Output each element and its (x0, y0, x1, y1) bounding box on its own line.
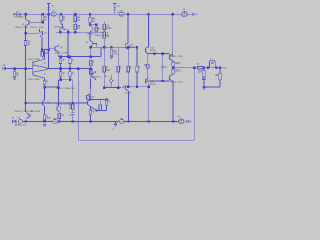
wire ladder mid (48, 68, 91, 70)
port flag top-left (13, 11, 20, 15)
wire x104 upper (103, 20, 105, 22)
wire x90 to Q5 (89, 24, 91, 27)
svg-text:100n: 100n (106, 28, 112, 30)
wire src to arrow bottom (184, 120, 186, 122)
wire lower base wire right (126, 86, 148, 88)
wire zobel top (203, 68, 205, 71)
wire rail down x148 (147, 14, 149, 47)
wire drv res top (147, 54, 149, 65)
junction left mid x14.6 (13, 67, 15, 69)
wire y99.4 wire (90, 98, 107, 100)
wire buffer base stub (31, 68, 33, 70)
wire left bus upper (25, 26, 27, 41)
ground below R8 (110, 56, 113, 58)
wire out to label (216, 67, 222, 69)
junction out x216.4 (215, 67, 217, 69)
wire ladder R1c top (69, 57, 71, 59)
wire load bottom (219, 80, 221, 87)
junction x104 y47.3 (103, 46, 105, 48)
junction top rail x128 (127, 13, 129, 15)
wire inductor leads (208, 67, 217, 69)
junction bottom x44.9b (43, 120, 45, 122)
wire ladder R2c bot (69, 76, 71, 79)
resistor Re lower (172, 69, 181, 73)
wire rail down x172.7 (172, 14, 174, 56)
wire Re upper top (172, 61, 174, 62)
svg-text:0: 0 (112, 129, 113, 131)
svg-text:W: W (44, 63, 46, 65)
wire QD0 collector stub (94, 71, 96, 72)
wire x97.4 upper lead (95, 25, 97, 27)
wire Q4 collector stub (57, 44, 59, 46)
wire top rail segment C (124, 13, 182, 15)
wire buffer base down (32, 69, 34, 72)
resistor Re upper (172, 62, 181, 66)
wire Q4 emitter to ladder (57, 52, 59, 57)
wire QD0 emitter stub (94, 79, 96, 81)
junction out x203.9 (203, 67, 205, 69)
junction out x219.9 (219, 67, 221, 69)
junction y87.1 x57.7 (57, 86, 59, 88)
svg-text:SINE(0 1 1k): SINE(0 1 1k) (15, 125, 26, 127)
wire Q6 base link (92, 43, 97, 45)
transistor Q10 (125, 43, 128, 49)
transistor Q4 (55, 46, 58, 52)
junction y32.3 x68 (67, 31, 69, 33)
junction y47.3 x136.9 (136, 46, 138, 48)
wire Rq join (106, 105, 108, 110)
junction loop top (193, 67, 195, 69)
svg-text:W70K_CONN: W70K_CONN (28, 59, 40, 61)
svg-text:8R: 8R (215, 75, 218, 77)
junction out x207.9 (207, 67, 209, 69)
transistor QB lower (33, 69, 48, 78)
junction ladder mid x78.3 (77, 67, 79, 69)
wire Q4 base link (49, 48, 55, 50)
wire ladder top ext (58, 56, 60, 58)
resistor Rq a (105, 100, 110, 105)
wire Q12 base stub (168, 54, 170, 58)
wire ladder R1c bot (69, 64, 71, 69)
wire x48.6 long vertical (48, 14, 50, 68)
wire bottom rail A (22, 120, 53, 122)
wire top rail segment A (16, 13, 51, 15)
wire Rq b top (99, 99, 101, 105)
svg-text:10R: 10R (198, 72, 203, 74)
junction top rail x75.3 (74, 13, 76, 15)
wire BD140 collector down (148, 83, 150, 121)
wire y87.1 link (45, 86, 59, 88)
junction x90.8 y68.6 (90, 67, 92, 69)
wire R3 top lead (60, 14, 62, 15)
junction x72.7 bottom (72, 120, 74, 122)
junction top rail x42.6 (41, 13, 43, 15)
resistor load 8R (215, 73, 221, 79)
resistor x90.8 b (90, 69, 93, 74)
wire R4 top lead (74, 14, 76, 16)
junction x72.7 y102.9 (72, 102, 74, 104)
wire R2 bottom lead (41, 56, 43, 58)
svg-text:W: W (44, 74, 46, 76)
transistor Q1 (26, 19, 29, 26)
junction y47.3 x128.3 (127, 46, 129, 48)
wire ladder L1 bot (60, 64, 62, 69)
junction ladder top x68 (67, 55, 69, 57)
resistor R7 (103, 24, 112, 30)
junction y47.3 x111.5 (110, 46, 112, 48)
wire drv res bottom (147, 68, 149, 78)
wire Rm3 bottom (127, 72, 129, 87)
wire loop vert right (193, 68, 195, 141)
wire QD1 collector stub (89, 94, 91, 96)
wire x104 top lead (103, 21, 105, 24)
junction y87.6 x104.3 (103, 86, 105, 88)
wire Q3 base path a (63, 28, 65, 30)
resistor chain R (43, 81, 48, 85)
wire Rgnd top lead (14, 69, 16, 72)
wire output node right b (203, 67, 208, 69)
junction y87.6 x118.2 (117, 86, 119, 88)
transistor Q3 (60, 23, 64, 29)
wire cap bottom lead (162, 68, 164, 81)
junction x90.1 y99.4 (89, 98, 91, 100)
transistor Q15 mirror (122, 85, 128, 91)
wire loop vert left (77, 69, 79, 141)
port flag top-right (193, 13, 197, 16)
resistor fb (69, 104, 74, 110)
resistor Rm4 (136, 66, 141, 72)
junction left bus y103 (24, 102, 26, 104)
wire Rm4 top (136, 47, 138, 66)
junction x59.3 bottom (58, 120, 60, 122)
svg-text:2N5401_CONN: 2N5401_CONN (30, 27, 44, 29)
svg-text:V3: V3 (18, 118, 20, 120)
junction y53.6 x162.7 (162, 52, 164, 54)
svg-text:Vm: Vm (120, 118, 123, 120)
resistor ladder L1 (59, 59, 64, 64)
wire Re lower bottom (172, 74, 174, 75)
transistor Q8b (87, 100, 90, 107)
junction ladder top x90.8 (90, 55, 92, 57)
resistor ladder R2c (69, 72, 74, 77)
wire bottom rail B (58, 120, 120, 122)
junction x128.4 bottom (127, 120, 129, 122)
junction y32.3 x60.1 (59, 31, 61, 33)
V+ flag bar 2 (113, 2, 116, 4)
svg-text:2N5401: 2N5401 (55, 27, 62, 29)
junction x96.2 y24.8 (95, 24, 97, 26)
resistor R8 to gnd (110, 49, 118, 56)
junction top rail x172.7 (172, 13, 174, 15)
resistor driver lower (144, 64, 149, 68)
wire fb mid (72, 109, 74, 113)
junction x90.6 bottom (89, 120, 91, 122)
resistor Rm2 (117, 66, 122, 72)
junction x90 y24.8 (89, 24, 91, 26)
transistor Q12 output upper (169, 54, 173, 61)
wire gnd stub bottom mid (115, 121, 117, 124)
wire QA base (26, 102, 40, 104)
junction chain y87.1 (43, 86, 45, 88)
junction x148.7 bottom (148, 120, 150, 122)
wire Q2 base link (26, 32, 40, 34)
wire Rm2 bottom (117, 72, 119, 88)
capacitor x162.7 (161, 66, 167, 69)
wire Q13 collector down (172, 81, 174, 121)
wire x58.5 to diode (58, 105, 61, 107)
wire Rm4 bottom (136, 72, 138, 87)
junction top rail x148.4 (147, 13, 149, 15)
fuse marks on V+ stub (47, 8, 50, 10)
wire lower base wire left (104, 87, 121, 89)
ammeter bottom left (53, 118, 58, 124)
ammeter on top rail right (119, 10, 124, 16)
wire x96.2 lower lead (95, 31, 97, 32)
port flag left mid (2, 65, 6, 70)
wire zobel-load join (204, 86, 220, 88)
svg-text:BD139: BD139 (150, 50, 156, 52)
wire fb bottom (72, 114, 74, 121)
wire x90.8 seg3 (90, 47, 92, 60)
junction bottom x25.6 (24, 120, 26, 122)
wire B1 bottom lead (110, 83, 112, 88)
wire y24.8 link (90, 24, 96, 26)
junction ladder bottom x70.5 (69, 79, 71, 81)
wire Q8b base wire (73, 102, 88, 104)
wire ladder L1 top (60, 57, 62, 59)
wire D1 bottom stub (58, 119, 60, 122)
ammeter on top rail left (51, 10, 56, 16)
wire QB upper collector (43, 50, 45, 60)
wire x104 vertical b (103, 38, 105, 66)
transistor QD1 (86, 94, 90, 100)
wire R4 mid lead (74, 22, 76, 25)
wire R5 bottom lead (74, 30, 76, 33)
wire ladder R2c top (69, 69, 71, 72)
wire load top (219, 68, 221, 74)
junction left bus y33.3 (24, 32, 26, 34)
wire output node right (173, 67, 197, 69)
junction y86.7 x136.9 (136, 86, 138, 88)
resistor output series (197, 64, 203, 69)
junction x90.8 y47.3 (90, 46, 92, 48)
wire Q8b emitter (91, 107, 97, 111)
transistor Q6 bulge (90, 40, 92, 47)
wire ladder bottom drop (72, 80, 74, 103)
wire Rm2 top (117, 47, 119, 66)
wire ladder top (61, 56, 101, 58)
resistor x104 second (103, 32, 110, 39)
svg-text:INSTAMP: INSTAMP (15, 15, 24, 18)
wire QA emitter down (44, 106, 46, 115)
fuse marks on V+ stub 2 (114, 8, 117, 10)
wire V+ stub 2 (114, 3, 116, 14)
junction bottom x72.7b (72, 120, 74, 122)
transistor Q5 bulge (90, 25, 92, 32)
junction Q2 emitter node (41, 48, 43, 50)
wire x90.8 seg2 (89, 46, 92, 48)
current source B1 diamond (109, 79, 113, 84)
resistor small x96.2 (95, 27, 100, 31)
wire x72.7 top (72, 103, 74, 104)
transistor diode D1 (57, 106, 61, 112)
junction y99.4 x106.6 (105, 98, 107, 100)
wire bottom rail C (124, 120, 179, 122)
svg-text:2N5401_CONN: 2N5401_CONN (15, 27, 29, 29)
wire zobel mid (203, 77, 205, 78)
resistor R down gnd (13, 71, 19, 77)
svg-text:2N5551: 2N5551 (129, 47, 136, 49)
svg-text:2N5401_CONNECTED: 2N5401_CONNECTED (56, 88, 75, 90)
resistor R5 (74, 24, 81, 30)
svg-text:2N5401_C: 2N5401_C (93, 77, 102, 79)
wire mid link y32.3 (56, 31, 104, 33)
ground input node (43, 124, 46, 126)
resistor R2 left (41, 52, 49, 57)
junction top rail x49.3 (47, 13, 49, 15)
junction bottom x173.5 (172, 120, 174, 122)
wire left mid (5, 68, 31, 70)
resistor 47k (43, 115, 51, 120)
wire Q5 to Q6 (89, 32, 91, 41)
port flag bottom-left (12, 117, 16, 122)
resistor ladder L2 (59, 72, 64, 77)
transistor Q14 BD140 (145, 78, 148, 83)
wire Q2 collector up (39, 29, 41, 32)
transistor QD0 (92, 72, 95, 78)
wire source to flag top-right (187, 13, 192, 15)
source circle small top-left (19, 13, 21, 15)
wire x104 vertical c (103, 72, 105, 88)
wire ladder feed (67, 32, 69, 56)
resistor x90.6 (89, 110, 94, 115)
voltage source bottom-right (177, 116, 184, 124)
resistor ladder R1c (69, 59, 74, 64)
wire x99.6 bend (100, 47, 102, 56)
wire x90.6 top (90, 107, 92, 111)
transistor Q11 (145, 47, 148, 54)
wire R6 top lead (89, 14, 91, 17)
ground bottom mid (114, 124, 117, 126)
wire y49.6 link (42, 49, 49, 51)
V+ flag bar (47, 2, 50, 4)
wire Q2 emitter down (41, 37, 43, 50)
ground zobel (202, 88, 205, 90)
wire Q10 emitter down (127, 49, 129, 67)
junction left bus y68.6 (24, 67, 26, 69)
wire R1 bottom lead (42, 21, 44, 23)
wire R3 bottom lead (60, 20, 62, 23)
resistor Rq b (99, 105, 102, 110)
wire Q3 collector down (59, 29, 61, 32)
junction top rail x94.4 (89, 13, 91, 15)
svg-text:2N5401_CONN: 2N5401_CONN (170, 82, 183, 84)
svg-text:2N5401: 2N5401 (124, 92, 131, 94)
junction ladder mid x61 (59, 67, 61, 69)
junction ladder bottom x61 (59, 79, 61, 81)
svg-text:0R22: 0R22 (175, 63, 181, 65)
wire x57.7 down2 (58, 87, 60, 106)
wire Rgnd bottom lead (14, 76, 16, 77)
svg-text:OUT: OUT (223, 68, 227, 70)
wire x90.6 bottom (90, 115, 92, 122)
wire Q1 base bias (29, 21, 43, 23)
junction x44.9 bottom (43, 120, 45, 122)
wire y110.4 (96, 109, 106, 111)
junction zobel bottom (203, 86, 205, 88)
wire B1 top lead (110, 75, 112, 79)
wire Q3 base path c (67, 30, 69, 33)
junction x90.8 y56.6 (90, 55, 92, 57)
junction y86.7 x148.7 (148, 86, 150, 88)
junction y32.3 x75.3 (74, 31, 76, 33)
transistor Q2 (39, 31, 42, 37)
capacitor fb (70, 113, 75, 117)
wire x57.7 down (58, 80, 60, 87)
junction y80.9 x162.7 (162, 80, 164, 82)
svg-text:2N5401_CONN: 2N5401_CONN (55, 53, 68, 55)
wire Q8b collector up (89, 98, 91, 100)
transistor QA (39, 100, 44, 106)
svg-text:Vm2: Vm2 (117, 12, 121, 14)
junction y86.7 x128.3 (127, 86, 129, 88)
resistor Rm1 (103, 66, 111, 72)
wire x96.8 down (96, 44, 98, 48)
resistor R1 (41, 15, 48, 21)
svg-text:BD140: BD140 (150, 84, 156, 86)
wire VAS rail y47.3 (91, 46, 137, 48)
transistor Q13 output lower (169, 75, 173, 82)
wire lower driver wire (148, 80, 170, 82)
resistor Rm3 (127, 66, 132, 72)
capacitor zobel (202, 78, 206, 79)
resistor R6 (89, 17, 96, 23)
resistor below D1 (58, 113, 64, 118)
resistor R5 on left bus (24, 41, 31, 47)
junction bottom x90.6b (89, 120, 91, 122)
svg-text:2N5401_CONN: 2N5401_CONN (170, 56, 183, 58)
junction bias node (41, 21, 43, 23)
junction ladder top x70.5 (69, 55, 71, 57)
resistor zobel (198, 70, 206, 76)
transistor diode D2 (27, 113, 31, 119)
svg-text:W70K_CONN: W70K_CONN (28, 79, 40, 81)
svg-text:AS_DIODE: AS_DIODE (31, 110, 41, 113)
wire chain mid (44, 85, 46, 87)
wire R8 bottom lead (111, 55, 113, 58)
wire V+ stub (48, 3, 50, 14)
resistor R4 (74, 16, 81, 22)
junction y49.6 x48.6 (47, 48, 49, 50)
wire Q13 base stub (168, 80, 170, 81)
wire R2 top lead (41, 50, 43, 52)
wire top rail segment B (56, 13, 119, 15)
junction top rail x25.6 (24, 13, 26, 15)
inductor/meter output (209, 60, 215, 67)
wire left bus lower (25, 46, 27, 112)
wire zobel bottom (203, 79, 205, 87)
wire ladder bottom (59, 79, 73, 81)
resistor x90.8 (90, 60, 95, 65)
wire QB lower collector (43, 78, 45, 81)
wire Q3 base path b (64, 29, 68, 31)
wire chain to QA (44, 87, 46, 100)
wire x104 vertical a (103, 30, 105, 32)
junction y110.4 x96.4 (95, 109, 97, 111)
wire driver emitter wire (148, 53, 170, 55)
wire D1 mid stub (58, 112, 60, 114)
resistor R3 (60, 15, 66, 21)
